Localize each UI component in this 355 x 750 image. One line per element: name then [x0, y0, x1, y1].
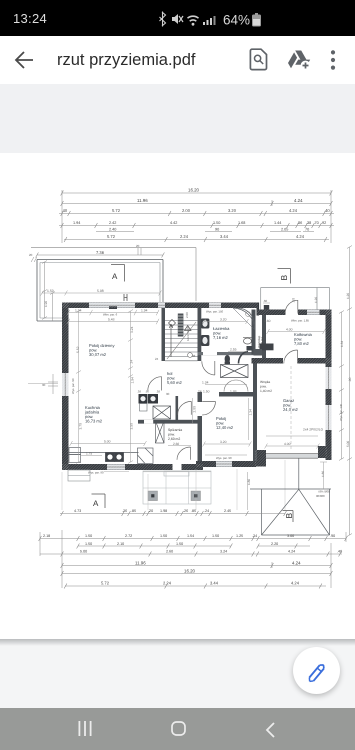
bath bottom wall [198, 352, 256, 355]
svg-text:16,73 m2: 16,73 m2 [85, 419, 103, 424]
pantry dim [168, 445, 191, 447]
svg-text:Wkn. par. 6: Wkn. par. 6 [103, 313, 118, 317]
kitchen counter left cabinets [69, 448, 139, 463]
pokoj-garage dim lines [205, 436, 318, 455]
kotlownia left wall [262, 315, 266, 358]
pantry wall [138, 420, 199, 424]
svg-text:4.00: 4.00 [284, 442, 291, 446]
svg-text:.38: .38 [156, 390, 160, 394]
svg-text:38: 38 [192, 354, 196, 358]
vestibule label rotated [257, 335, 264, 348]
svg-text:B: B [279, 274, 289, 280]
drive add icon [287, 49, 311, 71]
left dim column [42, 261, 55, 321]
battery icon [252, 15, 261, 27]
pencil icon [296, 650, 338, 692]
svg-text:16.20: 16.20 [188, 188, 200, 193]
bottom dim row C [40, 552, 342, 557]
svg-text:pow.: pow. [168, 433, 175, 437]
interior dims [67, 310, 326, 449]
svg-text:1.50: 1.50 [85, 534, 92, 538]
bathroom shower corner [233, 308, 255, 330]
garage center dashed line [290, 366, 292, 450]
svg-text:1.94: 1.94 [131, 377, 135, 384]
status time [13, 11, 47, 26]
svg-text:90: 90 [215, 228, 219, 232]
pokoj window bottom [216, 461, 232, 466]
svg-text:2.72: 2.72 [125, 534, 132, 538]
pantry lower door arc [177, 447, 191, 460]
porch column footings [148, 491, 201, 501]
svg-text:.26: .26 [122, 509, 127, 513]
bottom wall-dims row [60, 511, 286, 516]
svg-text:1.34: 1.34 [340, 341, 344, 347]
svg-text:7,16 m2: 7,16 m2 [213, 335, 229, 340]
stair number circles [188, 353, 193, 358]
kitchen window bottom [107, 464, 125, 469]
room label bath [213, 326, 230, 340]
svg-text:4.24: 4.24 [294, 198, 303, 203]
mute icon [172, 14, 183, 24]
svg-text:3.20: 3.20 [220, 318, 227, 322]
svg-text:.20: .20 [148, 509, 153, 513]
small hatched block below [156, 421, 165, 443]
svg-text:2.45: 2.45 [224, 509, 231, 513]
stair diamond symbol [169, 320, 176, 327]
svg-text:1.20: 1.20 [314, 297, 318, 303]
home icon [171, 721, 186, 736]
svg-text:Wkn. par. 1,85: Wkn. par. 1,85 [291, 319, 309, 323]
section marker A top [111, 265, 125, 282]
back arrow [14, 51, 34, 69]
svg-text:2.00: 2.00 [185, 312, 189, 318]
back icon [265, 722, 275, 738]
svg-text:2.18: 2.18 [43, 534, 50, 538]
svg-text:1.50: 1.50 [213, 221, 220, 225]
right dim columns [339, 246, 352, 537]
svg-text:.86: .86 [297, 221, 302, 225]
window left wall [62, 373, 69, 396]
svg-text:3.00: 3.00 [287, 534, 294, 538]
svg-text:2.24: 2.24 [163, 581, 172, 586]
porch pier [264, 305, 269, 312]
svg-text:2.24: 2.24 [180, 234, 189, 239]
pokoj bottom wall [196, 461, 256, 467]
svg-text:2.10: 2.10 [117, 542, 124, 546]
svg-text:1.50: 1.50 [47, 289, 54, 293]
canopy roof outline [250, 458, 331, 535]
window right wall upper [326, 367, 332, 389]
svg-text:3.24: 3.24 [220, 550, 227, 554]
svg-text:7.36: 7.36 [96, 250, 105, 255]
stairs [165, 321, 198, 361]
status icons [157, 10, 267, 28]
svg-text:2.42: 2.42 [109, 221, 116, 225]
svg-text:1.98: 1.98 [160, 509, 167, 513]
svg-text:1.88: 1.88 [230, 390, 237, 394]
svg-text:5.72: 5.72 [112, 208, 121, 213]
svg-text:4.24: 4.24 [296, 234, 305, 239]
svg-text:1.50: 1.50 [85, 542, 92, 546]
entry door arc [285, 300, 298, 314]
window right wall lower [326, 405, 332, 430]
svg-text:2.05: 2.05 [281, 228, 288, 232]
svg-text:3.44: 3.44 [220, 234, 229, 239]
pokoj top wall [219, 392, 257, 397]
section marker B top [278, 269, 291, 284]
window bath top [209, 303, 221, 308]
interior wall bath left [198, 308, 202, 361]
appbar divider hairline [0, 84, 355, 85]
dim 1.80 below pokoj [247, 472, 249, 510]
bluetooth icon [160, 12, 166, 27]
svg-text:20: 20 [136, 244, 140, 248]
bottom dim vertical connectors [40, 530, 346, 588]
top dim vertical connectors [62, 190, 331, 243]
svg-text:i 8% 9/08: i 8% 9/08 [318, 490, 330, 494]
svg-text:2x4 2P/02/LG: 2x4 2P/02/LG [303, 428, 324, 432]
bottom dim row 11.96 [61, 563, 333, 568]
svg-text:1.50: 1.50 [212, 534, 219, 538]
top dimension row detail 2b [96, 231, 314, 233]
bottom dim row A [39, 536, 348, 541]
room label kotlownia [294, 332, 312, 346]
viewer background top band [0, 84, 355, 153]
app bar title [57, 51, 195, 70]
terrace steps bottom [143, 471, 211, 504]
svg-text:2.20: 2.20 [271, 542, 278, 546]
svg-text:16x17,8x28: 16x17,8x28 [186, 326, 190, 341]
svg-text:16.20: 16.20 [184, 569, 196, 574]
exterior wall top main [62, 303, 258, 309]
top dimension row 11.96 / 4.24 [61, 201, 333, 206]
viewer background bottom band [0, 640, 355, 708]
svg-text:.26: .26 [183, 509, 188, 513]
bottom dim row 16.20 [61, 571, 333, 576]
stair shaft duct [178, 314, 184, 337]
small note label garage left [260, 380, 272, 393]
svg-text:7,80 m2: 7,80 m2 [294, 341, 310, 346]
wall above garage [252, 358, 332, 364]
svg-text:5.00: 5.00 [80, 550, 87, 554]
bathroom door arc [202, 361, 215, 375]
signal icon [203, 16, 216, 25]
terrace inner dims [41, 291, 162, 296]
svg-text:5.52: 5.52 [76, 346, 80, 353]
wifi icon [188, 16, 199, 25]
corridor double door arcs [224, 380, 248, 392]
app bar [0, 36, 355, 84]
svg-text:5,60 m2: 5,60 m2 [167, 380, 183, 385]
room label kitchen [84, 405, 103, 424]
exterior wall top right section [257, 310, 332, 316]
svg-text:.92: .92 [321, 221, 326, 225]
svg-text:1.94: 1.94 [141, 308, 148, 312]
svg-text:11.96: 11.96 [135, 561, 146, 566]
top dimension row 16.20 [61, 191, 333, 196]
sill lines below bottom wall [104, 471, 211, 473]
svg-text:30,07 m2: 30,07 m2 [89, 352, 107, 357]
interior wall living/stairs [162, 308, 166, 361]
svg-text:4.73: 4.73 [74, 509, 81, 513]
porch outline top right [261, 288, 330, 310]
garage left wall [253, 364, 257, 462]
svg-text:.60: .60 [292, 298, 296, 303]
svg-text:20: 20 [29, 253, 33, 257]
kitchen fridge hatched block [139, 394, 159, 411]
extension lines to bottom dims [62, 460, 285, 510]
pantry door arc [178, 401, 192, 414]
svg-text:Spiżarnia: Spiżarnia [168, 428, 182, 432]
wall jog at entry [257, 303, 260, 316]
exterior wall bottom main [62, 464, 203, 470]
pantry label [168, 428, 182, 441]
svg-text:4.24: 4.24 [292, 561, 301, 566]
svg-text:4.00: 4.00 [286, 328, 293, 332]
svg-text:1.80: 1.80 [247, 479, 251, 485]
svg-text:.90: .90 [145, 390, 149, 394]
vestibule radiator [260, 344, 274, 351]
svg-text:.38: .38 [306, 221, 311, 225]
svg-text:4.24: 4.24 [288, 550, 295, 554]
svg-text:Wys. par. 90: Wys. par. 90 [88, 471, 104, 475]
window labels [88, 310, 343, 475]
window mark above top wall [124, 294, 127, 301]
svg-text:70: 70 [305, 228, 309, 232]
svg-text:.60: .60 [263, 299, 268, 303]
FAB edit button [293, 647, 340, 694]
svg-text:2,60 m2: 2,60 m2 [168, 437, 180, 441]
kitchen tall cabinet [138, 448, 154, 464]
svg-text:5.00: 5.00 [104, 440, 111, 444]
bath right wall [252, 310, 256, 355]
svg-text:3.20: 3.20 [228, 208, 237, 213]
radiator under living window [109, 306, 117, 309]
svg-text:2.60: 2.60 [173, 442, 179, 446]
kitchen sink [106, 453, 124, 462]
svg-text:1.60: 1.60 [264, 319, 271, 323]
top dimension row detail 3 [64, 237, 329, 242]
interior vertical dim lines [76, 310, 249, 464]
wardrobe x-box corridor [221, 365, 249, 378]
svg-text:90/300: 90/300 [316, 494, 325, 498]
steps bottom-left door [68, 470, 90, 481]
svg-text:.70: .70 [314, 221, 319, 225]
svg-text:3.44: 3.44 [210, 581, 219, 586]
bottom wall jog / corner column [255, 450, 266, 467]
exterior wall left [62, 303, 69, 471]
svg-text:1.80: 1.80 [321, 471, 325, 477]
svg-text:2.00: 2.00 [182, 208, 191, 213]
kitchen dim 1.75 [81, 455, 103, 457]
svg-text:.24: .24 [252, 534, 257, 538]
room label living [89, 343, 115, 357]
terrace outline [37, 260, 163, 322]
svg-text:1.25: 1.25 [236, 534, 243, 538]
svg-text:1.50: 1.50 [176, 542, 183, 546]
svg-text:1.94: 1.94 [73, 221, 80, 225]
svg-text:3.70: 3.70 [79, 423, 83, 430]
recents icon [78, 721, 92, 736]
svg-text:24: 24 [130, 360, 134, 364]
section marker B bottom [283, 511, 295, 523]
svg-text:.24: .24 [197, 390, 202, 394]
svg-text:1.50: 1.50 [160, 534, 167, 538]
svg-text:5.48: 5.48 [108, 317, 115, 321]
top dimension row detail 2 [59, 223, 334, 228]
svg-text:5.98: 5.98 [97, 289, 104, 293]
bathroom bidet [201, 335, 210, 346]
svg-text:.40: .40 [62, 208, 68, 213]
svg-text:2.40: 2.40 [109, 228, 116, 232]
overflow menu [329, 50, 337, 70]
garage gate [266, 454, 318, 458]
svg-text:4.24: 4.24 [291, 581, 300, 586]
left wall window dim [48, 374, 58, 394]
pdf page [0, 153, 355, 640]
svg-text:1.44: 1.44 [274, 221, 281, 225]
svg-text:3.20: 3.20 [220, 440, 227, 444]
pokoj door arc [202, 402, 215, 416]
svg-text:24: 24 [155, 357, 159, 361]
svg-text:1,40 m2: 1,40 m2 [260, 389, 272, 393]
svg-text:3,60 m2: 3,60 m2 [260, 337, 264, 348]
svg-text:1.90: 1.90 [44, 301, 48, 307]
window stair top [158, 303, 165, 308]
room label hol [167, 371, 183, 385]
svg-text:1.34: 1.34 [249, 409, 253, 416]
bottom dim row B [77, 544, 310, 549]
svg-text:5.72: 5.72 [101, 581, 110, 586]
status bar [0, 0, 355, 36]
porch dim .60 [263, 302, 270, 304]
svg-text:4.24: 4.24 [289, 208, 298, 213]
top dimension row detail 1 [59, 211, 334, 216]
svg-text:.90: .90 [330, 534, 335, 538]
svg-text:A: A [112, 272, 118, 281]
rotated interior dims [76, 298, 296, 430]
svg-text:.40: .40 [337, 550, 342, 554]
living room door arc [148, 377, 162, 391]
svg-text:1.54: 1.54 [187, 534, 194, 538]
svg-text:5.00: 5.00 [346, 441, 350, 447]
svg-text:1.50: 1.50 [203, 390, 210, 394]
wall thickness ticks .20 [31, 248, 141, 262]
svg-text:Wys. par. 90: Wys. par. 90 [71, 378, 75, 394]
bathroom wc pedestal [225, 355, 230, 364]
hall closet x-box [153, 406, 171, 419]
section marker A bottom [92, 494, 106, 508]
svg-text:12,40 m2: 12,40 m2 [216, 425, 234, 430]
preview icon [249, 48, 269, 71]
svg-text:.90: .90 [348, 377, 352, 382]
kitchen-hol wall [176, 396, 179, 421]
stair triangle symbol [185, 326, 192, 331]
svg-text:11.96: 11.96 [137, 198, 148, 203]
svg-text:2.00: 2.00 [193, 406, 197, 413]
svg-text:.85: .85 [131, 509, 136, 513]
svg-text:2.60: 2.60 [166, 550, 173, 554]
svg-text:A: A [93, 499, 99, 508]
svg-text:4.42: 4.42 [170, 221, 177, 225]
terrace door bottom [173, 464, 182, 470]
svg-text:.85: .85 [191, 509, 196, 513]
svg-text:Wys. par. 150: Wys. par. 150 [206, 310, 224, 314]
window living room top [89, 303, 135, 308]
bottom dim row last [64, 584, 326, 589]
bathroom washbasin [244, 338, 252, 344]
pokoj left wall [198, 392, 203, 461]
svg-text:pow.: pow. [260, 385, 267, 389]
bathroom toilet [201, 319, 210, 329]
svg-text:1.68: 1.68 [238, 221, 245, 225]
garage front wall right corner [318, 446, 327, 458]
svg-text:Wnęka: Wnęka [260, 380, 270, 384]
kotlownia-garage door arc [284, 350, 298, 364]
navigation bar [0, 708, 355, 750]
svg-text:.24: .24 [204, 509, 209, 513]
svg-text:3.50: 3.50 [130, 423, 134, 430]
eaves overhang line above terrace [31, 248, 196, 302]
room label garage [283, 398, 299, 412]
wall hatch overlays [62, 303, 332, 471]
svg-text:1.75: 1.75 [86, 452, 92, 456]
svg-text:90: 90 [42, 383, 46, 387]
svg-text:5.72: 5.72 [107, 234, 116, 239]
room label pokoj [216, 416, 234, 430]
svg-text:1.34: 1.34 [202, 381, 209, 385]
svg-text:2.55: 2.55 [230, 348, 237, 352]
vestibule-hol door arc bold [238, 352, 248, 364]
svg-text:.40: .40 [324, 208, 330, 213]
terrace dim 7.36 [36, 253, 165, 258]
exterior wall right [326, 310, 332, 461]
svg-text:.38: .38 [137, 390, 141, 394]
svg-text:1.20: 1.20 [346, 293, 350, 299]
svg-text:Wys. par. 90: Wys. par. 90 [216, 456, 232, 460]
svg-text:90: 90 [166, 392, 170, 396]
